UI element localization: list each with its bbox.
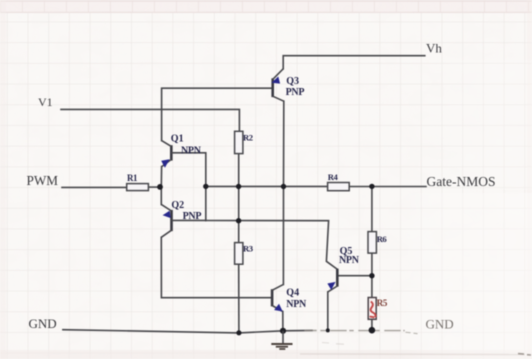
wire Q4 emitter to ground (282, 312, 284, 331)
resistor R2 (235, 131, 253, 153)
node bases x output rail (203, 184, 208, 189)
node R3 at GND (236, 330, 241, 335)
transistor Q3 (PNP) (272, 69, 305, 101)
node Q3/Q4 collectors x output rail (281, 184, 286, 189)
svg-text:R2: R2 (243, 133, 253, 143)
svg-text:Q1: Q1 (171, 134, 184, 145)
node Q5 emitter at GND (326, 328, 330, 332)
wire GND rail (63, 330, 312, 333)
svg-text:GND: GND (29, 316, 57, 331)
wire Vh rail (283, 56, 425, 69)
svg-text:Q2: Q2 (171, 200, 184, 211)
wire Q2 collector to Q4 base (161, 237, 271, 297)
svg-text:R4: R4 (328, 172, 339, 182)
wire PWM input (62, 186, 127, 188)
resistor R1 (127, 173, 149, 191)
svg-text:R5: R5 (377, 298, 388, 308)
wire Q1 collector to Q3 base (top rail) (162, 88, 272, 140)
node R5 at GND (369, 327, 376, 334)
wire R6 top (371, 186, 373, 231)
resistor R3 (235, 243, 253, 265)
label V1 (38, 95, 53, 109)
svg-text:Q4: Q4 (286, 288, 299, 299)
svg-text:R1: R1 (127, 173, 138, 183)
label GND right (faded) (426, 317, 454, 332)
svg-text:R6: R6 (377, 234, 388, 244)
junction dots (157, 184, 375, 336)
svg-text:Gate-NMOS: Gate-NMOS (427, 174, 496, 189)
wire Q5 base to R5/R6 node (339, 275, 372, 277)
wire R5 bottom to GND (371, 319, 373, 330)
wire GND rail faint right (305, 331, 417, 334)
wire R1 to emitters node (148, 186, 159, 188)
svg-text:NPN: NPN (339, 255, 360, 266)
label GND left (29, 316, 57, 331)
resistor R4 (328, 172, 350, 191)
transistor Q5 (NPN) (327, 246, 359, 292)
svg-text:NPN: NPN (181, 145, 202, 156)
svg-text:NPN: NPN (286, 299, 307, 310)
wire R2 bottom to R3 top (238, 154, 240, 243)
wire V1 rail (61, 109, 239, 131)
svg-text:PNP: PNP (183, 211, 202, 222)
node Q5 base / R6 / R5 (369, 273, 374, 278)
node PWM/R1/emitters (157, 184, 163, 190)
node R2 column x lower rail (236, 218, 241, 223)
wire node to R5 top (371, 276, 373, 298)
transistor Q4 (NPN) (272, 284, 307, 311)
wire Q5 emitter to GND (327, 292, 329, 331)
label Vh (426, 41, 442, 56)
wire R3 bottom to GND (238, 264, 240, 333)
svg-text:V1: V1 (38, 95, 53, 109)
svg-text:R3: R3 (243, 244, 253, 254)
ground symbol (271, 331, 292, 349)
svg-text:GND: GND (426, 317, 454, 332)
node R2 column x output rail (236, 184, 241, 189)
label Gate-NMOS (427, 174, 496, 189)
svg-text:Q3: Q3 (286, 76, 299, 87)
wire bases vertical (205, 153, 207, 221)
resistor R5 (red marked) (368, 298, 388, 320)
svg-text:PNP: PNP (286, 87, 305, 98)
wire output rail left (bases node to R4) (206, 185, 328, 187)
label PWM (27, 173, 59, 188)
wire R6 bottom to node (371, 253, 373, 276)
wire Q1 emitter to node A (160, 167, 162, 205)
wire Q3 collector / Q4 collector column (282, 101, 284, 284)
transistor Q1 (NPN) (161, 134, 206, 168)
node ground stem (280, 328, 286, 334)
wire R4 to Gate-NMOS (349, 186, 426, 188)
node R6 top (369, 184, 374, 189)
resistor R6 (368, 232, 387, 254)
wire lower bases rail to Q5 collector (206, 221, 337, 270)
transistor Q2 (PNP) (161, 200, 206, 237)
svg-text:Vh: Vh (426, 41, 442, 56)
svg-text:PWM: PWM (27, 173, 59, 188)
